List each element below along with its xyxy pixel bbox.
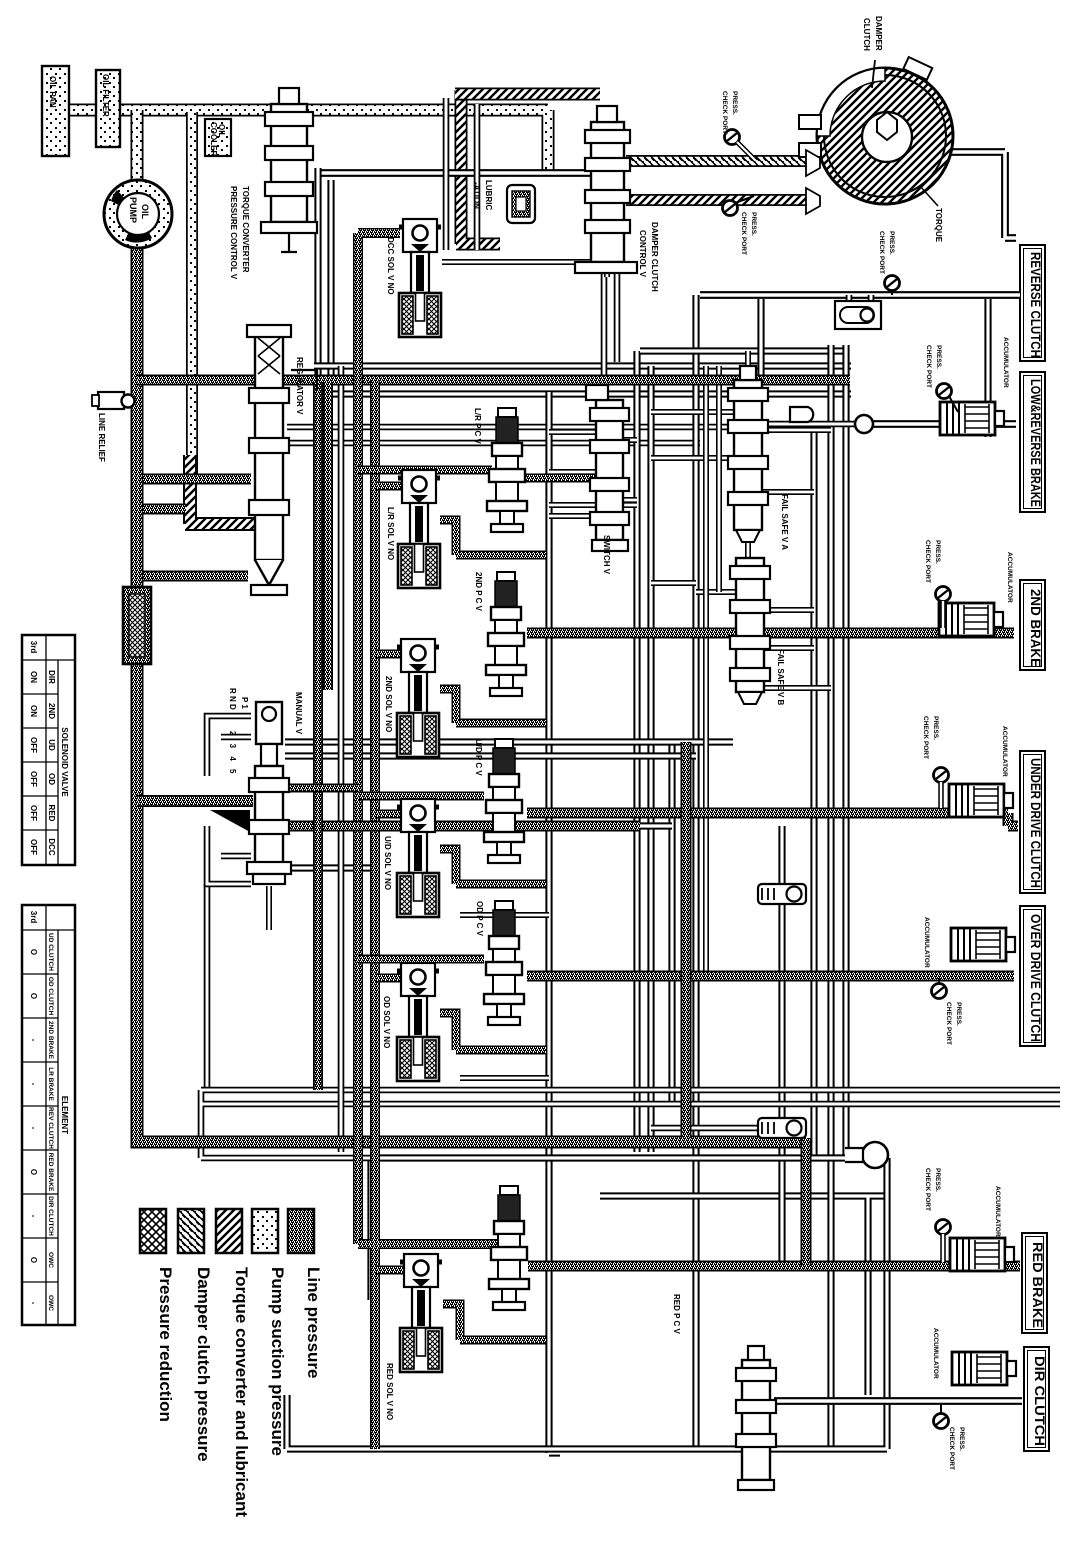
node LOW&REVERSE BRAKE label box xyxy=(1020,372,1045,512)
switch valve xyxy=(586,385,629,551)
node DIR CLUTCH label box xyxy=(1024,1347,1049,1451)
svg-text:RED: RED xyxy=(47,805,56,822)
svg-text:-: - xyxy=(29,1083,38,1086)
press check port top 1 xyxy=(725,130,757,162)
pipe: torque converter feed top run (hatched) xyxy=(455,88,600,101)
svg-text:OWC: OWC xyxy=(47,1252,54,1268)
press check port reverse xyxy=(885,276,900,296)
legend swatch damper clutch pressure xyxy=(178,1209,204,1253)
node 2ND BRAKE label box xyxy=(1020,580,1045,670)
svg-text:Damper clutch pressure: Damper clutch pressure xyxy=(194,1267,213,1462)
pipe: U/D solenoid elbow xyxy=(440,849,546,884)
pipe: solenoid feed stubs xyxy=(375,486,404,1270)
svg-text:RED SOL V NO: RED SOL V NO xyxy=(385,1363,394,1420)
svg-text:TORQUE CONVERTER: TORQUE CONVERTER xyxy=(241,186,250,273)
legend swatch pump suction pressure xyxy=(252,1209,278,1253)
node OVER DRIVE CLUTCH label box xyxy=(1020,906,1045,1046)
svg-text:OFF: OFF xyxy=(29,839,38,855)
pipe: lower mid horizontal with check capsule xyxy=(651,1125,758,1132)
solenoid RED SOL V NO xyxy=(400,1254,442,1372)
accumulator red xyxy=(950,1238,1014,1271)
svg-text:-ATION: -ATION xyxy=(472,182,481,209)
svg-text:U/D SOL V NO: U/D SOL V NO xyxy=(383,836,392,890)
svg-text:UD CLUTCH: UD CLUTCH xyxy=(47,933,54,971)
svg-text:DCC: DCC xyxy=(47,838,56,856)
torque converter xyxy=(799,57,953,214)
pipe: PCV left feed stubs xyxy=(358,470,492,959)
svg-text:CONTROL V: CONTROL V xyxy=(638,230,647,278)
pipe: left drain vertical xyxy=(204,884,211,1090)
pcv U/D PCV xyxy=(484,739,524,863)
pipe: solenoid supply bus 1 xyxy=(358,233,400,380)
pipe: right long verticals xyxy=(814,345,846,1449)
svg-text:U/D P C V: U/D P C V xyxy=(474,739,483,776)
manual valve xyxy=(247,702,291,884)
line relief valve xyxy=(92,392,135,409)
pipe: failsafe A drop xyxy=(757,299,764,376)
svg-text:PRESS.: PRESS. xyxy=(932,716,939,740)
pipe: center extra horizontals xyxy=(460,505,696,1078)
node RED BRAKE label box xyxy=(1022,1233,1047,1333)
svg-text:CHECK PORT: CHECK PORT xyxy=(878,231,885,274)
svg-text:OD CLUTCH: OD CLUTCH xyxy=(47,977,54,1016)
svg-text:PRESS.: PRESS. xyxy=(958,1427,965,1451)
pipe: under drive clutch feed xyxy=(527,813,1018,826)
pipe: dir clutch feed xyxy=(774,1397,1022,1405)
pipe: manual valve speckled stub xyxy=(285,784,358,793)
pipe: 2ND solenoid elbow xyxy=(440,689,546,723)
pipe: line pressure main riser and bottom bus xyxy=(137,246,806,1142)
oil pump xyxy=(104,180,172,248)
svg-text:Torque converter and lubricant: Torque converter and lubricant xyxy=(232,1267,251,1517)
cooler capsule (lubrication) xyxy=(507,185,535,223)
svg-text:RED BRAKE: RED BRAKE xyxy=(1030,1242,1045,1328)
svg-text:LOW&REVERSE BRAKE: LOW&REVERSE BRAKE xyxy=(1028,379,1043,507)
pipe: center frame horizontals xyxy=(314,366,851,394)
svg-text:CHECK PORT: CHECK PORT xyxy=(924,1168,931,1211)
svg-text:UD: UD xyxy=(47,739,56,751)
oil cooler box xyxy=(205,119,231,156)
pipe: dcc pilot line xyxy=(442,262,607,277)
pipe: solenoid supply bus vertical 2 xyxy=(358,380,497,1449)
svg-text:OIL PAN: OIL PAN xyxy=(48,76,57,108)
accumulator dir xyxy=(952,1352,1016,1385)
pipe: converter feed chamber walls xyxy=(446,98,477,250)
svg-text:-: - xyxy=(29,1215,38,1218)
svg-text:DIR CLUTCH: DIR CLUTCH xyxy=(1032,1356,1047,1446)
pipe: under drive return xyxy=(528,822,672,829)
pipe: center extra verticals xyxy=(706,366,719,976)
pipe: check capsule riser links xyxy=(778,826,785,1266)
svg-text:DAMPER CLUTCH: DAMPER CLUTCH xyxy=(650,222,659,292)
svg-text:RED BRAKE: RED BRAKE xyxy=(47,1153,54,1192)
solenoid 2ND SOL V NO xyxy=(397,639,439,757)
pipe: switch valve stubs xyxy=(549,432,637,516)
pipe: suction drop to oil pump inlet xyxy=(131,110,144,185)
svg-text:CHECK PORT: CHECK PORT xyxy=(948,1427,955,1470)
svg-text:SOLENOID VALVE: SOLENOID VALVE xyxy=(60,727,69,797)
pipe: long mid vertical xyxy=(549,392,560,1453)
junction circle to low-reverse xyxy=(855,415,873,433)
pipe: torque converter feed vertical (hatched) xyxy=(456,90,500,244)
svg-text:TORQUE: TORQUE xyxy=(934,208,943,243)
accumulator low-reverse xyxy=(940,402,1004,435)
svg-text:OD SOL V NO: OD SOL V NO xyxy=(382,996,391,1048)
solenoid U/D SOL V NO xyxy=(397,799,439,917)
legend swatch pressure reduction xyxy=(140,1209,166,1253)
pipe: manual valve bottom drain xyxy=(266,886,272,930)
svg-text:ON: ON xyxy=(29,671,38,683)
svg-text:ACCUMULATOR: ACCUMULATOR xyxy=(1001,726,1008,777)
pressure reduction wedge at manual valve xyxy=(210,810,250,832)
accumulator 2nd xyxy=(939,603,1003,636)
pipe: main feed to center frames xyxy=(137,375,850,386)
pipe: lubrication return line xyxy=(316,169,590,177)
node UNDER DRIVE CLUTCH label box xyxy=(1020,751,1045,893)
svg-text:UNDER DRIVE CLUTCH: UNDER DRIVE CLUTCH xyxy=(1028,758,1043,888)
svg-text:CHECK PORT: CHECK PORT xyxy=(945,1002,952,1045)
svg-text:REVERSE CLUTCH: REVERSE CLUTCH xyxy=(1028,252,1043,358)
pipe: mid plain riser xyxy=(338,366,345,1152)
pipe: line pressure overlay repaint (crossings) xyxy=(137,246,806,1142)
press check port red xyxy=(936,1220,951,1263)
svg-text:REV CLUTCH: REV CLUTCH xyxy=(47,1107,54,1149)
fail safe valve A xyxy=(728,366,768,542)
svg-text:OD: OD xyxy=(47,773,56,785)
press check port low-reverse xyxy=(937,384,959,413)
pipe: long left horizontals xyxy=(287,427,742,443)
pipe: failsafe A to junction xyxy=(766,295,871,424)
solenoid L/R SOL V NO xyxy=(398,470,440,588)
legend swatch line pressure xyxy=(288,1209,314,1253)
pipe: suction return column xyxy=(186,112,198,474)
relief ball large circle xyxy=(845,1142,888,1168)
svg-text:O: O xyxy=(29,1257,38,1263)
legend swatch torque converter and lubricant xyxy=(216,1209,242,1253)
svg-text:O: O xyxy=(29,949,38,955)
svg-text:OIL: OIL xyxy=(140,204,150,220)
pipe: converter outlet to cooler xyxy=(950,152,1016,238)
pipe: RED solenoid elbow xyxy=(443,1304,546,1340)
svg-text:MANUAL V: MANUAL V xyxy=(294,692,303,735)
svg-text:ACCUMULATOR: ACCUMULATOR xyxy=(932,1328,939,1379)
pipe: regulator left connections xyxy=(143,479,251,576)
pcv RED PCV xyxy=(489,1186,529,1310)
pipe: converter return line (hatched) xyxy=(626,194,812,206)
svg-text:2ND BRAKE: 2ND BRAKE xyxy=(47,1021,54,1060)
svg-text:DAMPER: DAMPER xyxy=(874,16,883,51)
svg-text:OWC: OWC xyxy=(47,1295,54,1311)
pipe: fail safe A stubs xyxy=(651,351,831,492)
svg-text:CLUTCH: CLUTCH xyxy=(862,18,871,51)
press check port 2nd xyxy=(936,587,951,629)
oil pan strainer box xyxy=(42,66,69,156)
press check port under drive xyxy=(934,768,949,809)
pcv OD PCV xyxy=(484,901,524,1025)
pipe: center frame verticals xyxy=(637,295,696,1449)
svg-text:-: - xyxy=(29,1039,38,1042)
pipe: 2ND brake feed xyxy=(527,628,1014,639)
pipe: dcc valve to switch valve link xyxy=(604,273,617,385)
pipe: bottom mid horizontals xyxy=(201,1090,1060,1158)
pipe: pump suction from oil pan (dotted) xyxy=(56,110,548,170)
svg-text:FAIL SAFE V B: FAIL SAFE V B xyxy=(776,649,785,706)
accumulator under drive xyxy=(949,784,1013,817)
svg-text:3rd: 3rd xyxy=(29,641,38,654)
svg-text:ACCUMULATOR: ACCUMULATOR xyxy=(923,917,930,968)
svg-text:OFF: OFF xyxy=(29,805,38,821)
check ball capsule mid 2 xyxy=(758,1118,806,1138)
press check port top 2 xyxy=(723,196,755,216)
regulator valve xyxy=(247,325,317,595)
svg-text:3rd: 3rd xyxy=(29,911,38,924)
pipe: left frame verticals xyxy=(318,168,331,380)
pipe: fail safe B stubs xyxy=(696,592,831,688)
svg-text:REGULATOR V: REGULATOR V xyxy=(295,357,304,415)
svg-text:-: - xyxy=(29,1127,38,1130)
svg-text:DCC SOL V NO: DCC SOL V NO xyxy=(386,237,395,295)
svg-text:PRESS.: PRESS. xyxy=(934,540,941,564)
svg-text:PUMP: PUMP xyxy=(128,197,138,223)
svg-text:O: O xyxy=(29,993,38,999)
torque converter pressure control valve xyxy=(261,88,317,252)
svg-text:2 3 4 5: 2 3 4 5 xyxy=(228,731,237,776)
svg-text:SWITCH V: SWITCH V xyxy=(602,535,611,575)
svg-text:2ND BRAKE: 2ND BRAKE xyxy=(1028,589,1043,667)
pipe: bottom sub frame xyxy=(287,1158,887,1449)
line filter capsule on riser xyxy=(123,587,151,664)
pipe: red brake riser xyxy=(801,1138,812,1266)
svg-text:OVER DRIVE CLUTCH: OVER DRIVE CLUTCH xyxy=(1028,914,1043,1042)
pipe: lower right frame xyxy=(600,1196,890,1395)
svg-text:PRESS.: PRESS. xyxy=(750,212,757,236)
svg-text:PRESS.: PRESS. xyxy=(935,345,942,369)
svg-text:ON: ON xyxy=(29,705,38,717)
pipe: damper clutch control to converter (hatched) xyxy=(626,155,810,167)
pcv 2ND PCV xyxy=(486,572,526,696)
svg-text:CHECK PORT: CHECK PORT xyxy=(924,540,931,583)
svg-text:OD P C V: OD P C V xyxy=(475,901,484,937)
svg-text:PRESS.: PRESS. xyxy=(731,91,738,115)
pipe: red brake feed xyxy=(528,1261,1020,1272)
svg-text:L/R P C V: L/R P C V xyxy=(473,408,482,445)
svg-text:2ND: 2ND xyxy=(47,703,56,719)
pipe: manual valve line out (speckled) xyxy=(285,821,640,832)
fail safe valve B xyxy=(730,558,770,704)
svg-text:LUBRIC: LUBRIC xyxy=(484,180,493,210)
damper clutch control valve xyxy=(575,106,637,273)
svg-text:CHECK PORT: CHECK PORT xyxy=(721,91,728,134)
svg-text:COOLER: COOLER xyxy=(209,122,218,156)
svg-text:DIR CLUTCH: DIR CLUTCH xyxy=(47,1196,54,1236)
svg-text:2ND SOL V NO: 2ND SOL V NO xyxy=(384,676,393,732)
svg-text:FAIL SAFE V A: FAIL SAFE V A xyxy=(780,494,789,550)
svg-text:2ND P C V: 2ND P C V xyxy=(474,572,483,612)
svg-text:RED P C V: RED P C V xyxy=(672,1294,681,1335)
svg-text:O: O xyxy=(29,1169,38,1175)
pipe: reverse drop to low-reverse xyxy=(984,299,991,437)
pcv L/R PCV xyxy=(487,408,527,532)
pipe: OD solenoid elbow xyxy=(440,1013,546,1050)
solenoid OD SOL V NO xyxy=(397,963,439,1081)
pipe: failsafe A-B link xyxy=(745,542,751,558)
node REVERSE CLUTCH label box xyxy=(1020,245,1045,361)
svg-text:ACCUMULATOR: ACCUMULATOR xyxy=(1006,552,1013,603)
svg-text:LR BRAKE: LR BRAKE xyxy=(47,1067,54,1101)
svg-text:PRESS.: PRESS. xyxy=(888,231,895,255)
svg-text:CHECK PORT: CHECK PORT xyxy=(925,345,932,388)
svg-text:-: - xyxy=(29,1302,38,1305)
pipe: left lp risers xyxy=(313,382,323,1090)
pipe: reverse clutch feed xyxy=(700,291,1020,299)
pipe: L/R solenoid to L/R PCV elbow xyxy=(440,520,546,555)
bullet check near fail safe A xyxy=(790,407,813,422)
svg-text:ACCUMULATOR: ACCUMULATOR xyxy=(1002,337,1009,388)
svg-text:Line pressure: Line pressure xyxy=(304,1267,323,1379)
svg-text:CHECK PORT: CHECK PORT xyxy=(922,716,929,759)
svg-text:ACCUMULATOR: ACCUMULATOR xyxy=(994,1186,1001,1237)
pipe: manual valve left loops xyxy=(207,716,251,884)
pipe: manual valve outputs xyxy=(285,742,733,868)
svg-text:OFF: OFF xyxy=(29,771,38,787)
accumulator over drive xyxy=(951,928,1015,961)
solenoid DCC SOL V NO xyxy=(399,219,441,337)
pipe: L/R PCV out to switch valve xyxy=(525,474,596,483)
svg-text:OFF: OFF xyxy=(29,737,38,753)
table SOLENOID VALVE xyxy=(22,635,75,865)
pipe: low-reverse brake feed xyxy=(871,420,1016,428)
pipe: over drive clutch feed xyxy=(527,971,1014,982)
red pcv spool valve xyxy=(736,1346,776,1490)
pipe: branch to manual valve xyxy=(137,795,253,807)
svg-text:ELEMENT: ELEMENT xyxy=(60,1096,69,1134)
label PRESS CHECK PORT x9 xyxy=(721,91,965,1470)
svg-text:OIL FILTER: OIL FILTER xyxy=(101,74,110,117)
check ball capsule mid 1 xyxy=(758,884,806,904)
pipe: frame top horizontal xyxy=(640,347,848,354)
pipe: regulator overflow to suction (hatched elbow) xyxy=(185,455,254,524)
svg-text:L/R SOL V NO: L/R SOL V NO xyxy=(386,507,395,560)
press check port over drive xyxy=(932,978,947,999)
svg-text:PRESS.: PRESS. xyxy=(955,1002,962,1026)
svg-text:CHECK PORT: CHECK PORT xyxy=(740,212,747,255)
svg-text:PRESSURE CONTROL V: PRESSURE CONTROL V xyxy=(229,186,238,280)
svg-text:PRESS.: PRESS. xyxy=(934,1168,941,1192)
svg-text:DIR: DIR xyxy=(47,670,56,684)
svg-text:LINE RELIEF: LINE RELIEF xyxy=(97,413,106,462)
press check port dir xyxy=(934,1403,949,1429)
pipe: solenoid supply bus vertical 1 xyxy=(353,380,363,1244)
check valve capsule on reverse line xyxy=(835,301,881,329)
svg-text:P 1: P 1 xyxy=(240,697,249,709)
svg-text:R N D: R N D xyxy=(228,688,237,710)
oil filter box xyxy=(96,70,120,147)
table ELEMENT xyxy=(22,905,75,1325)
svg-text:Pressure reduction: Pressure reduction xyxy=(156,1267,175,1422)
pipe: mid riser to bottom bus xyxy=(681,742,692,1138)
